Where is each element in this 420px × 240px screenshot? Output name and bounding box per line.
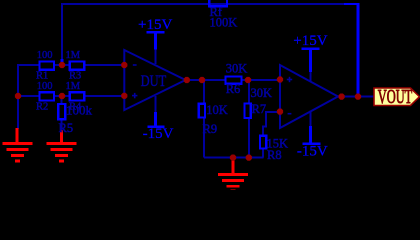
svg-text:1M: 1M [66,81,81,92]
svg-text:-15V: -15V [143,126,174,142]
svg-text:30K: 30K [226,62,248,76]
svg-text:R1: R1 [36,70,48,81]
svg-text:100K: 100K [210,16,238,30]
svg-text:+15V: +15V [293,33,327,49]
svg-text:R7: R7 [252,102,267,116]
svg-text:30K: 30K [251,86,273,100]
svg-text:100: 100 [37,50,53,61]
svg-text:R2: R2 [36,101,48,112]
svg-text:R3: R3 [69,70,81,81]
svg-text:100k: 100k [66,103,93,118]
svg-text:R5: R5 [59,121,74,135]
svg-text:1M: 1M [66,50,81,61]
svg-text:R8: R8 [267,148,282,162]
svg-text:10K: 10K [206,103,228,117]
svg-text:R6: R6 [226,82,241,96]
svg-text:R9: R9 [203,122,218,136]
svg-text:100: 100 [37,81,53,92]
svg-text:-15V: -15V [297,143,328,159]
svg-text:DUT: DUT [141,73,167,91]
svg-text:VOUT: VOUT [378,85,412,108]
svg-text:+15V: +15V [138,17,172,33]
